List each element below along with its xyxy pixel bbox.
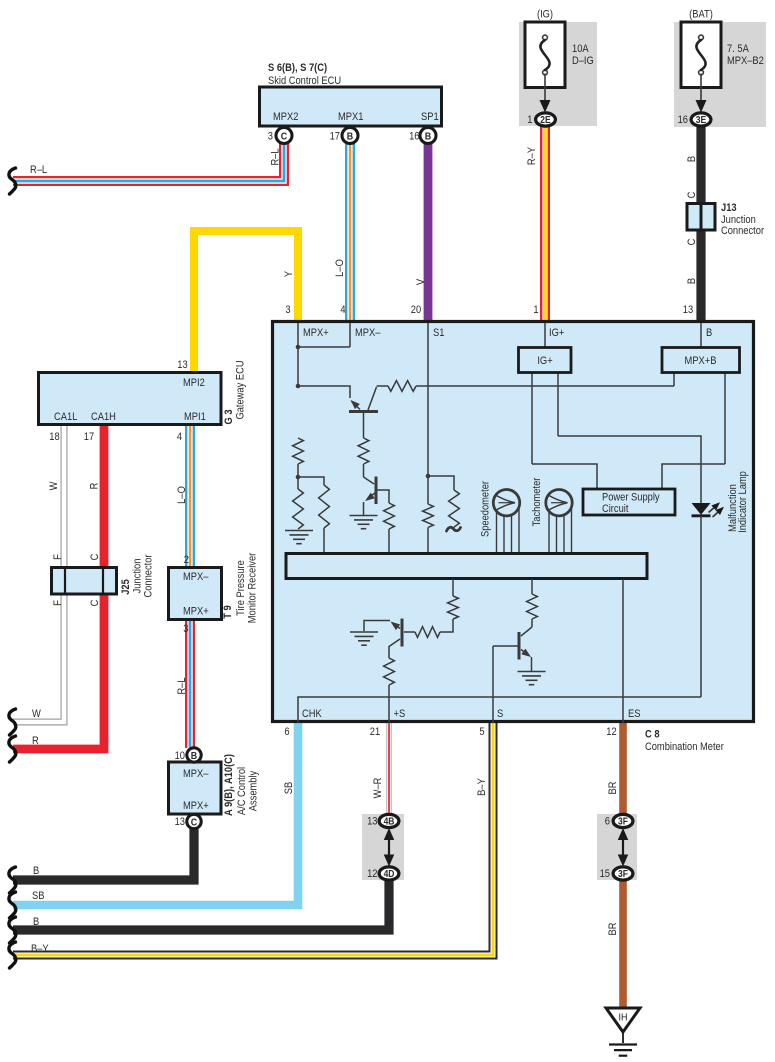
svg-text:BR: BR — [607, 782, 619, 795]
svg-text:S: S — [497, 708, 503, 720]
svg-text:CA1H: CA1H — [91, 411, 116, 423]
svg-text:SB: SB — [283, 782, 295, 795]
svg-text:21: 21 — [370, 726, 381, 738]
svg-text:MPX–: MPX– — [183, 571, 209, 583]
svg-text:2E: 2E — [540, 114, 550, 125]
svg-text:J13: J13 — [721, 202, 737, 214]
svg-text:Skid Control ECU: Skid Control ECU — [268, 75, 341, 87]
svg-text:12: 12 — [606, 726, 617, 738]
svg-text:MPX–: MPX– — [355, 327, 381, 339]
svg-text:MPX+: MPX+ — [183, 800, 209, 812]
svg-text:3E: 3E — [696, 114, 706, 125]
svg-text:B: B — [425, 131, 431, 143]
svg-text:17: 17 — [330, 131, 341, 143]
svg-text:S1: S1 — [433, 327, 445, 339]
svg-text:B: B — [33, 916, 39, 928]
svg-text:12: 12 — [367, 868, 378, 880]
svg-text:4B: 4B — [384, 816, 395, 827]
svg-text:MPX–B2: MPX–B2 — [727, 55, 764, 67]
svg-text:B–Y: B–Y — [31, 943, 49, 955]
svg-text:17: 17 — [84, 431, 95, 443]
svg-text:MPX+: MPX+ — [183, 606, 209, 618]
svg-text:L–O: L–O — [176, 486, 188, 504]
svg-text:F: F — [52, 600, 64, 606]
svg-text:Power Supply: Power Supply — [602, 492, 660, 504]
svg-text:B: B — [686, 156, 698, 162]
svg-text:13: 13 — [175, 816, 186, 828]
svg-text:A 9(B), A10(C): A 9(B), A10(C) — [223, 754, 235, 816]
svg-text:R–L: R–L — [176, 677, 188, 694]
svg-text:Assembly: Assembly — [248, 770, 260, 811]
svg-text:B: B — [191, 750, 197, 762]
svg-text:MPX2: MPX2 — [273, 111, 299, 123]
svg-text:C: C — [191, 817, 197, 829]
svg-text:3: 3 — [285, 304, 290, 316]
svg-text:S 6(B), S 7(C): S 6(B), S 7(C) — [268, 62, 327, 74]
svg-text:B: B — [347, 131, 353, 143]
svg-text:3F: 3F — [618, 816, 628, 827]
svg-text:CHK: CHK — [302, 708, 322, 720]
svg-text:W: W — [48, 481, 60, 490]
svg-text:CA1L: CA1L — [54, 411, 78, 423]
svg-text:Connector: Connector — [143, 554, 155, 598]
svg-text:B–Y: B–Y — [476, 778, 488, 796]
svg-text:+S: +S — [394, 708, 406, 720]
svg-text:V: V — [415, 279, 427, 285]
svg-text:MPX+B: MPX+B — [685, 355, 717, 367]
svg-text:C: C — [281, 131, 287, 143]
svg-text:W–R: W–R — [372, 778, 384, 799]
svg-text:Indicator Lamp: Indicator Lamp — [737, 471, 749, 533]
svg-text:1: 1 — [527, 114, 532, 126]
svg-text:4D: 4D — [384, 868, 395, 879]
svg-text:Tachometer: Tachometer — [531, 477, 543, 526]
svg-text:R–L: R–L — [270, 148, 282, 165]
svg-text:(BAT): (BAT) — [689, 9, 713, 21]
svg-text:J25: J25 — [120, 579, 132, 595]
svg-text:BR: BR — [607, 923, 619, 936]
svg-text:A/C Control: A/C Control — [236, 767, 248, 815]
svg-text:Circuit: Circuit — [602, 503, 629, 515]
svg-text:20: 20 — [411, 304, 422, 316]
svg-text:C: C — [89, 554, 101, 561]
svg-text:IG+: IG+ — [549, 327, 564, 339]
svg-text:7. 5A: 7. 5A — [727, 43, 749, 55]
svg-text:15: 15 — [600, 868, 611, 880]
svg-text:SB: SB — [32, 890, 45, 902]
svg-text:Gateway ECU: Gateway ECU — [235, 360, 247, 419]
svg-text:3F: 3F — [618, 868, 628, 879]
svg-text:T 9: T 9 — [222, 605, 234, 619]
svg-text:6: 6 — [284, 726, 289, 738]
svg-text:R–L: R–L — [30, 164, 47, 176]
svg-text:4: 4 — [177, 431, 182, 443]
svg-text:13: 13 — [177, 359, 188, 371]
svg-text:16: 16 — [678, 114, 689, 126]
svg-text:3: 3 — [183, 623, 188, 635]
svg-text:C 8: C 8 — [645, 729, 660, 741]
svg-text:B: B — [686, 278, 698, 284]
svg-text:B: B — [706, 327, 712, 339]
svg-text:(IG): (IG) — [537, 9, 553, 21]
svg-text:1: 1 — [533, 304, 538, 316]
svg-text:R: R — [89, 483, 101, 490]
svg-text:4: 4 — [340, 304, 345, 316]
svg-text:MPX+: MPX+ — [303, 327, 329, 339]
svg-text:10A: 10A — [572, 43, 589, 55]
svg-text:Monitor Receiver: Monitor Receiver — [247, 552, 259, 623]
svg-text:MPX1: MPX1 — [338, 111, 364, 123]
svg-text:6: 6 — [605, 816, 610, 828]
svg-text:C: C — [89, 600, 101, 607]
svg-text:13: 13 — [367, 816, 378, 828]
svg-text:L–O: L–O — [334, 259, 346, 277]
svg-text:3: 3 — [268, 131, 273, 143]
svg-text:G 3: G 3 — [223, 409, 235, 424]
svg-text:W: W — [32, 708, 41, 720]
svg-text:13: 13 — [683, 304, 694, 316]
svg-text:C: C — [686, 192, 698, 199]
svg-text:SP1: SP1 — [421, 111, 439, 123]
svg-text:MPX–: MPX– — [183, 768, 209, 780]
svg-text:B: B — [33, 865, 39, 877]
svg-text:IH: IH — [619, 1012, 628, 1024]
svg-text:Combination Meter: Combination Meter — [645, 741, 724, 753]
svg-text:10: 10 — [175, 750, 186, 762]
svg-text:R–Y: R–Y — [526, 147, 538, 165]
svg-text:2: 2 — [184, 554, 189, 566]
svg-text:Y: Y — [283, 271, 295, 277]
svg-text:MPI2: MPI2 — [183, 377, 205, 389]
svg-text:D–IG: D–IG — [572, 55, 594, 67]
svg-text:ES: ES — [628, 708, 641, 720]
svg-text:18: 18 — [49, 431, 60, 443]
svg-text:Speedometer: Speedometer — [480, 480, 492, 537]
svg-text:MPI1: MPI1 — [184, 411, 206, 423]
svg-text:R: R — [32, 735, 39, 747]
svg-text:IG+: IG+ — [537, 355, 552, 367]
svg-text:5: 5 — [479, 726, 484, 738]
svg-text:16: 16 — [409, 131, 420, 143]
svg-text:Connector: Connector — [721, 225, 765, 237]
svg-text:F: F — [52, 554, 64, 560]
svg-text:C: C — [686, 239, 698, 246]
svg-text:Tire Pressure: Tire Pressure — [235, 560, 247, 616]
